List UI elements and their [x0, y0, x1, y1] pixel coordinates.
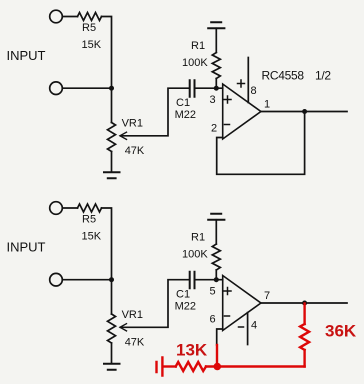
- wire output pin 1: [261, 111, 347, 113]
- svg-text:15K: 15K: [82, 39, 102, 51]
- svg-text:C1: C1: [176, 97, 190, 109]
- ground (top channel): [104, 172, 120, 178]
- red wire 13K to 36K leg: [206, 365, 305, 367]
- ground (bottom channel): [104, 364, 120, 370]
- svg-text:47K: 47K: [125, 337, 145, 349]
- op-amp U1B triangle: [223, 276, 261, 331]
- svg-text:4: 4: [251, 320, 257, 332]
- input jack J4 bottom: [50, 273, 63, 286]
- wire supply to R1 bottom: [215, 220, 217, 244]
- red input terminal bars: [157, 358, 163, 376]
- VR1 wiper arrow bottom: [120, 324, 127, 331]
- junction node A: [109, 86, 114, 91]
- input jack J3 bottom: [50, 202, 63, 215]
- red junction dot: [214, 363, 222, 371]
- svg-text:100K: 100K: [182, 249, 208, 261]
- svg-text:VR1: VR1: [122, 309, 143, 321]
- wire supply to R1: [215, 28, 217, 52]
- wire node A down to VR1: [111, 88, 113, 122]
- wire node C down to VR1: [111, 280, 113, 314]
- resistor R1 (bottom): [212, 244, 220, 270]
- svg-text:5: 5: [210, 286, 216, 298]
- supply rail symbol (bottom): [208, 214, 224, 220]
- svg-text:7: 7: [264, 290, 270, 302]
- feedback wire top (unity): [217, 112, 305, 175]
- svg-text:100K: 100K: [182, 57, 208, 69]
- minus sign inverting input (top): [225, 124, 230, 126]
- svg-text:1: 1: [264, 99, 270, 111]
- wire VR1 bottom to ground: [111, 343, 113, 364]
- minus sign pin4 supply marker: [239, 326, 244, 328]
- minus sign inverting input (bottom): [225, 315, 230, 317]
- potentiometer VR1 (bottom) body: [108, 314, 116, 343]
- svg-text:INPUT: INPUT: [7, 240, 46, 255]
- red wire 36K to output node: [303, 304, 305, 325]
- svg-text:36K: 36K: [325, 322, 357, 341]
- svg-text:R1: R1: [191, 232, 205, 244]
- plus sign non-inverting input (top): [224, 96, 231, 103]
- svg-text:M22: M22: [175, 301, 196, 313]
- potentiometer VR1 (top) body: [108, 123, 116, 152]
- wire J1 to R5: [63, 16, 78, 18]
- op-amp U1A triangle: [223, 84, 261, 139]
- junction node B: [214, 86, 219, 91]
- svg-text:C1: C1: [176, 289, 190, 301]
- VR1 wiper arrow: [120, 132, 127, 139]
- svg-text:15K: 15K: [82, 231, 102, 243]
- capacitor C1 (top): [190, 80, 195, 97]
- input jack J1 top: [50, 10, 63, 23]
- red wire terminal to 13K: [164, 365, 176, 367]
- svg-text:8: 8: [251, 85, 257, 97]
- wire VR1 wiper to C1: [121, 88, 189, 136]
- svg-text:6: 6: [210, 314, 216, 326]
- wire J4 to node C: [63, 279, 112, 281]
- red wire from feedback node down: [216, 345, 218, 367]
- svg-text:R5: R5: [82, 214, 96, 226]
- svg-text:R5: R5: [82, 22, 96, 34]
- resistor R1 (top): [212, 53, 220, 79]
- resistor 13K (red): [176, 362, 206, 371]
- svg-text:M22: M22: [175, 109, 196, 121]
- supply rail symbol (top): [208, 22, 224, 28]
- wire C1 to node D: [196, 279, 223, 281]
- wire output pin 7: [261, 302, 347, 304]
- svg-text:R1: R1: [191, 40, 205, 52]
- svg-text:INPUT: INPUT: [7, 48, 46, 63]
- junction node C: [109, 277, 114, 282]
- resistor R5 (bottom): [78, 204, 102, 212]
- red wire up to 36K: [303, 350, 305, 367]
- svg-text:VR1: VR1: [122, 118, 143, 130]
- capacitor C1 (bottom): [190, 272, 195, 289]
- resistor 36K (red): [300, 324, 309, 350]
- feedback wire bottom (black part): [217, 329, 223, 345]
- svg-text:13K: 13K: [176, 341, 208, 360]
- svg-text:3: 3: [210, 94, 216, 106]
- wire R5 to top rail corner, down to node A: [102, 17, 112, 89]
- wire J3 to R5: [63, 207, 78, 209]
- junction output node bottom: [302, 301, 307, 306]
- pin 4 supply wire: [247, 313, 249, 345]
- plus sign pin8 supply marker: [238, 80, 245, 87]
- svg-text:47K: 47K: [125, 145, 145, 157]
- wire R5 to rail corner down to node C: [102, 208, 112, 280]
- wire J2 to node A: [63, 87, 112, 89]
- wire C1 to node B: [196, 87, 223, 89]
- wire VR1 wiper to C1 bottom: [121, 280, 189, 328]
- svg-text:2: 2: [211, 123, 217, 135]
- plus sign non-inverting input (bottom): [224, 288, 231, 295]
- junction node D: [214, 277, 219, 282]
- svg-text:1/2: 1/2: [315, 69, 331, 83]
- pin 8 supply wire: [247, 58, 249, 103]
- svg-text:RC4558: RC4558: [262, 69, 305, 83]
- wire R1 bottom to node D: [215, 270, 217, 280]
- input jack J2 top: [50, 82, 63, 95]
- resistor R5 (top): [78, 13, 102, 21]
- junction output node top: [302, 109, 307, 114]
- wire R1 bottom to node B: [215, 79, 217, 89]
- wire VR1 bottom to ground: [111, 152, 113, 173]
